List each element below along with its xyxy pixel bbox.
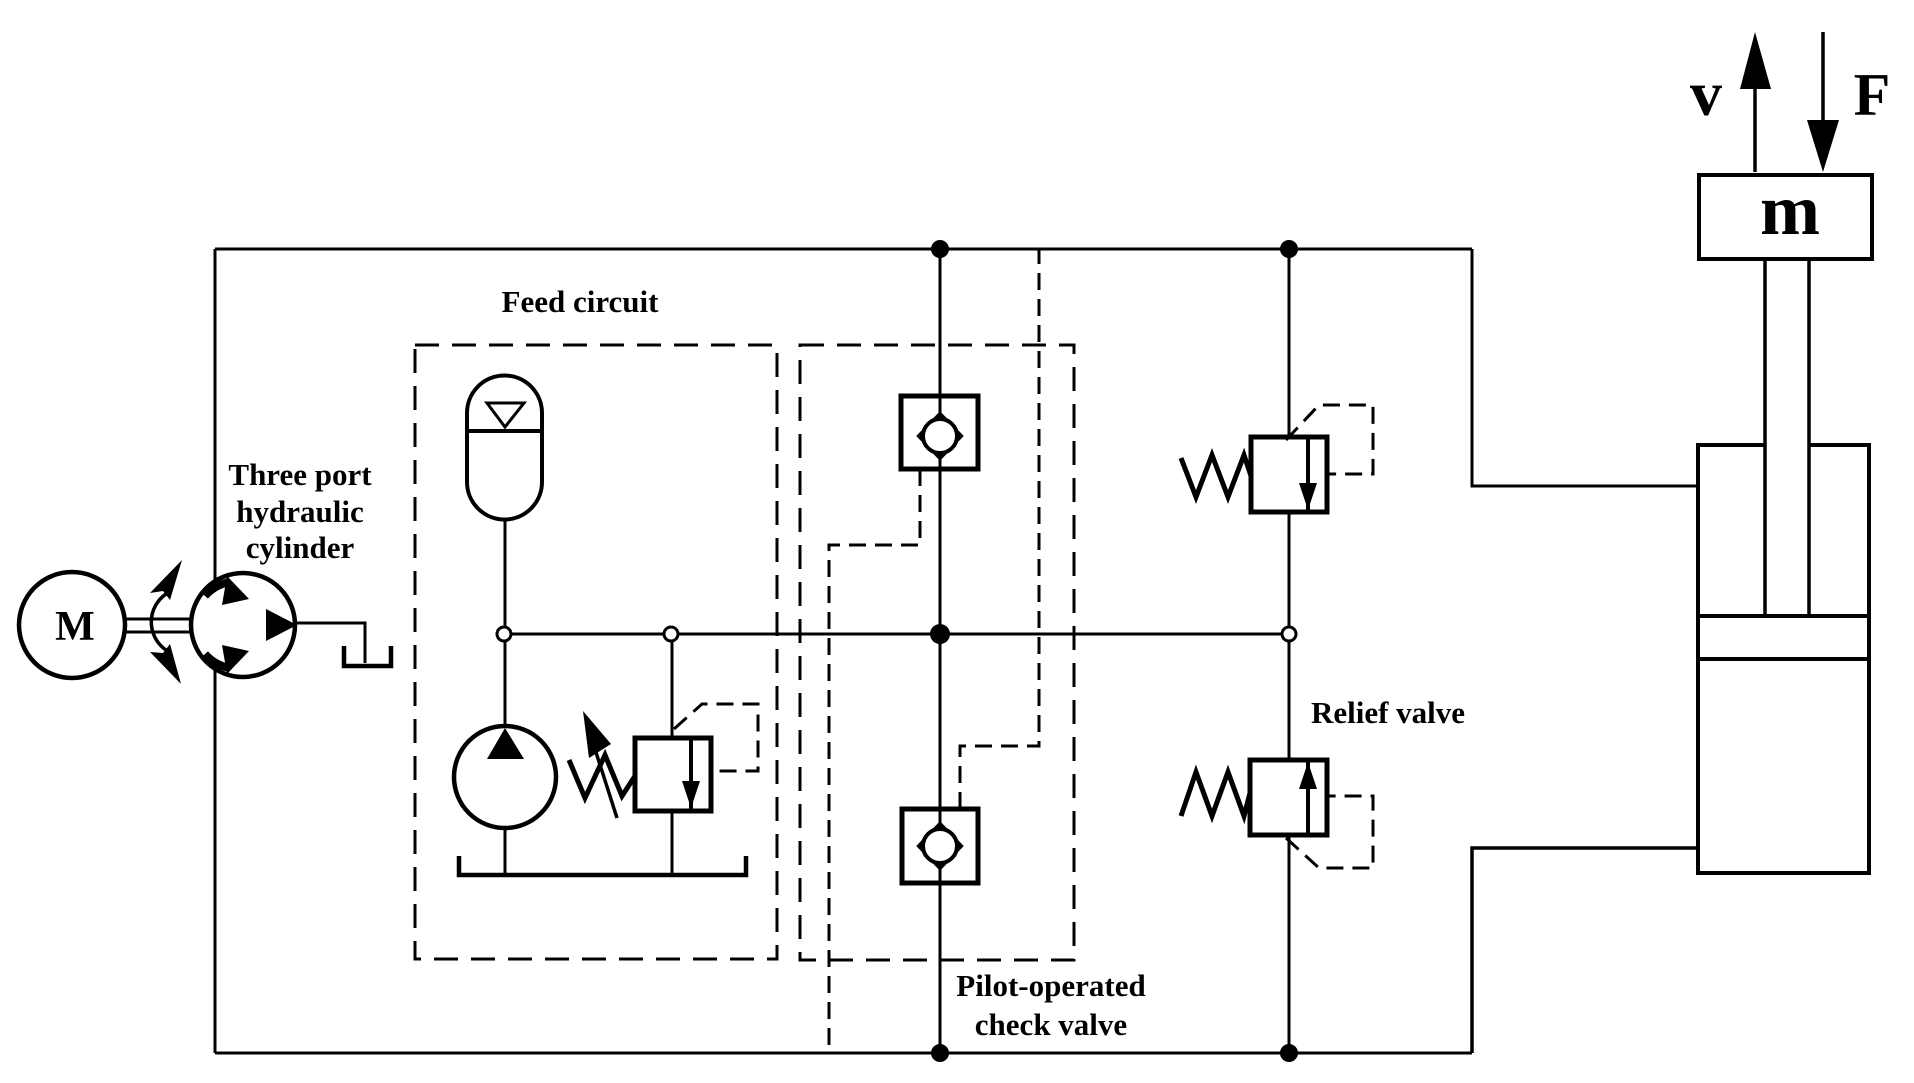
node dot top wire at check branch [931,240,949,258]
lower relief valve pilot [1286,796,1373,868]
wire top bus [215,248,1472,251]
svg-text:Relief valve: Relief valve [1311,695,1465,730]
check valve branch line [939,249,942,1053]
svg-text:check valve: check valve [975,1007,1127,1042]
accumulator [467,376,542,520]
upper relief valve [1251,437,1327,512]
feed circuit dashed box [415,345,777,959]
feed relief valve spring [569,755,635,798]
tank bracket feed circuit [459,856,746,875]
upper relief valve spring [1181,455,1251,497]
feed pump [454,634,556,875]
feed relief valve adjustment arrow [583,711,617,818]
pilot line upper check valve [829,469,920,1053]
pump/motor unit [191,573,297,677]
force F arrow [1807,32,1890,172]
wire left rail lower [214,668,217,1053]
svg-text:cylinder: cylinder [246,530,355,565]
rotation arrows [150,560,182,684]
upper relief valve pilot [1286,405,1373,474]
node dot bottom wire at relief branch [1280,1044,1298,1062]
svg-text:M: M [55,604,95,650]
mid bus [504,633,1289,636]
motor M [19,572,125,678]
wire bottom bus [215,1052,1472,1055]
pilot-operated check valve dashed box [800,345,1074,960]
node open circle mid-left [664,627,678,641]
svg-text:v: v [1690,58,1722,129]
svg-text:m: m [1760,170,1820,250]
shaft [125,619,192,632]
svg-text:F: F [1854,62,1891,128]
node dot top wire at relief branch [1280,240,1298,258]
svg-text:Three port: Three port [228,457,372,492]
svg-text:hydraulic: hydraulic [236,494,363,529]
tank pump drain [344,646,391,666]
node dot mid [930,624,950,644]
feed relief valve [635,738,711,811]
wire left rail upper [214,249,217,582]
label Three port hydraulic cylinder [228,457,372,565]
feed relief valve wires [671,634,674,737]
upper check valve [901,396,978,469]
pilot line lower check valve [960,249,1039,809]
relief valve branch line [1288,249,1291,1053]
label Pilot-operated check valve [956,968,1145,1042]
node open circle left [497,627,511,641]
wire accumulator to node [504,520,507,634]
node dot bottom wire at check branch [931,1044,949,1062]
lower relief valve [1250,760,1327,835]
wire pump outlet to drain tank [295,623,365,663]
svg-text:Pilot-operated: Pilot-operated [956,968,1145,1003]
lower relief valve spring [1181,772,1250,816]
lower check valve [902,809,978,883]
wire top-right drop to cylinder upper port [1472,249,1698,486]
piston rod [1765,259,1809,616]
node open circle right [1282,627,1296,641]
mass m block [1699,170,1872,259]
wire bottom-right rise to cylinder lower port [1472,848,1698,1053]
hydraulic cylinder body [1698,445,1869,873]
feed relief valve pilot line [674,704,758,771]
velocity v arrow [1690,32,1771,172]
svg-text:Feed circuit: Feed circuit [502,284,660,319]
